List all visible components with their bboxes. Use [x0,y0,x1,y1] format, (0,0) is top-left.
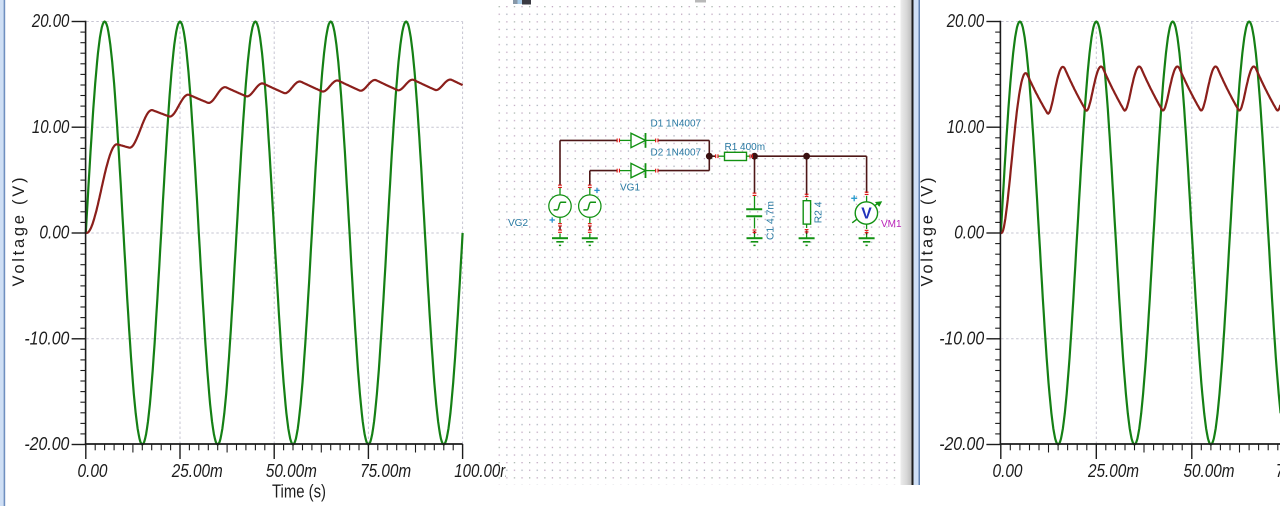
svg-text:75.00m: 75.00m [1276,461,1280,481]
svg-text:10.00: 10.00 [947,117,985,137]
svg-text:Time (s): Time (s) [272,482,326,502]
svg-text:0.00: 0.00 [39,223,69,243]
svg-text:10.00: 10.00 [32,117,70,137]
svg-text:20.00: 20.00 [946,11,984,31]
svg-text:-10.00: -10.00 [24,328,69,348]
svg-text:-10.00: -10.00 [939,328,984,348]
svg-text:Voltage (V): Voltage (V) [919,178,937,287]
svg-text:0.00: 0.00 [993,461,1023,481]
svg-text:C1 4,7m: C1 4,7m [766,201,777,240]
svg-text:R2 4: R2 4 [814,201,825,223]
svg-text:0.00: 0.00 [78,461,108,481]
svg-text:25.00m: 25.00m [171,461,223,481]
svg-text:50.00m: 50.00m [1184,461,1235,481]
svg-text:V: V [861,205,872,222]
svg-text:75.00m: 75.00m [360,461,411,481]
svg-text:0.00: 0.00 [954,223,984,243]
svg-text:VG1: VG1 [620,183,640,194]
svg-text:D1 1N4007: D1 1N4007 [651,119,702,130]
svg-text:D2 1N4007: D2 1N4007 [651,148,702,159]
svg-text:-20.00: -20.00 [939,434,984,454]
svg-text:50.00m: 50.00m [266,461,317,481]
svg-text:VG2: VG2 [508,218,528,229]
svg-text:VM1: VM1 [881,219,902,230]
svg-text:20.00: 20.00 [31,11,69,31]
svg-text:100.00m: 100.00m [454,461,513,481]
svg-text:Voltage (V): Voltage (V) [10,178,28,287]
svg-text:R1 400m: R1 400m [725,142,766,153]
svg-text:25.00m: 25.00m [1087,461,1139,481]
svg-text:-20.00: -20.00 [24,434,69,454]
